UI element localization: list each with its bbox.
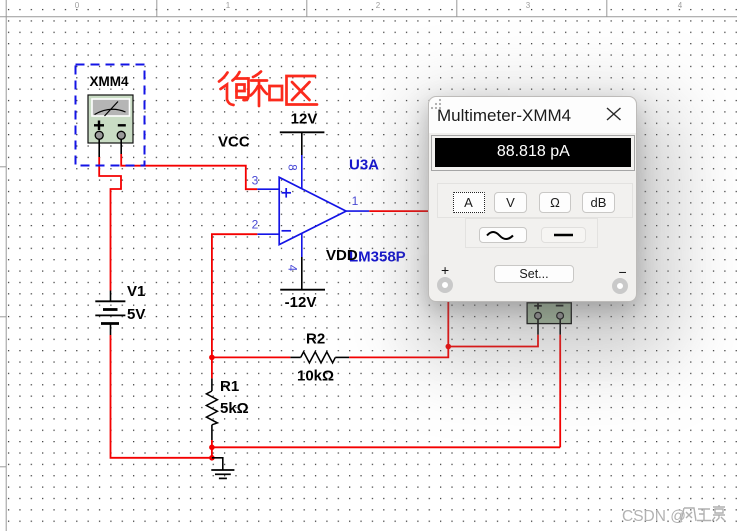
ruler left line [5, 0, 7, 531]
opamp pin1 lead [346, 210, 369, 212]
dialog minus label [619, 264, 627, 280]
VCC label 12V [291, 111, 318, 128]
VCC power rail [280, 132, 325, 155]
wire green meter plus to output node (red) [448, 335, 538, 347]
svg-text:8: 8 [285, 164, 297, 170]
svg-text:VDD: VDD [326, 247, 358, 264]
resistor R2 [290, 352, 349, 363]
wire XMM4 plus to V1 (red) [99, 157, 121, 291]
wire opamp output to hidden node (red) [369, 211, 448, 346]
VDD net label [326, 247, 358, 264]
multimeter XMM4 terminal pins [95, 131, 125, 139]
dialog waveform group [465, 218, 598, 248]
opamp pin number 3 [252, 174, 259, 188]
svg-text:12V: 12V [291, 111, 318, 128]
VDD power rail [280, 257, 325, 290]
opamp refdes U3A [349, 157, 379, 174]
opamp pin number 8 (rotated) [285, 164, 297, 170]
opamp pin8 lead [301, 155, 303, 188]
dialog button dc [541, 227, 586, 243]
ruler top line [0, 16, 737, 18]
opamp pin4 lead [301, 234, 303, 258]
dialog title bar [429, 97, 636, 133]
battery V1 labels [127, 283, 145, 323]
svg-text:2: 2 [252, 218, 259, 232]
opamp pin number 1 [352, 194, 359, 208]
svg-text:VCC: VCC [218, 134, 250, 151]
dialog left terminal [437, 277, 453, 293]
svg-text:3: 3 [252, 174, 259, 188]
svg-text:10kΩ: 10kΩ [297, 368, 334, 385]
ruler top numbers [75, 1, 683, 10]
annotation 饱和区 (red CJK, drawn strokes) [219, 72, 317, 107]
resistor R1 labels [220, 378, 249, 417]
svg-text:3: 3 [526, 1, 531, 10]
green meter icon (partially hidden) [527, 303, 571, 324]
svg-text:5kΩ: 5kΩ [220, 400, 249, 417]
svg-text:4: 4 [678, 1, 683, 10]
wire R1 top (red) [211, 357, 213, 378]
dialog button V [494, 192, 527, 213]
multimeter dialog window [428, 96, 637, 302]
VDD label -12V [285, 294, 317, 311]
dialog Set button [494, 265, 574, 283]
wire opamp pin2 feedback (red) [212, 234, 257, 357]
junction R1 bottom [209, 445, 215, 451]
svg-text:0: 0 [75, 1, 80, 10]
VCC net label [218, 134, 250, 151]
ruler left ticks [0, 167, 6, 467]
opamp pin2 lead [257, 233, 279, 235]
wire green meter plus stub (black) [537, 319, 539, 335]
wire XMM4 minus to opamp pin3 (red) [121, 154, 257, 189]
opamp part LM358P [349, 249, 406, 266]
watermark CSDN [622, 508, 686, 525]
dialog button dB [582, 192, 615, 213]
watermark CJK name (drawn strokes) [681, 505, 725, 521]
multimeter XMM4 body [88, 95, 133, 143]
wire bottom row to green meter minus (red) [212, 446, 560, 448]
multimeter XMM4 selection box (dashed) [76, 65, 145, 166]
wire XMM4 minus stub (black) [120, 139, 122, 154]
junction ground row [209, 455, 215, 461]
svg-text:V1: V1 [127, 283, 145, 300]
opamp pin3 lead [257, 188, 279, 190]
ground [211, 458, 234, 479]
wire green meter minus stub (black) [559, 319, 561, 335]
dialog right terminal [612, 278, 628, 294]
svg-text:2: 2 [376, 1, 381, 10]
junction output node [446, 344, 452, 350]
wire green meter minus down (red) [559, 335, 561, 448]
svg-text:R2: R2 [306, 331, 325, 348]
dialog button A [453, 192, 485, 213]
ruler top ticks [157, 0, 607, 17]
dialog reading display [431, 135, 635, 171]
multimeter XMM4 plus terminal mark [94, 121, 104, 131]
multimeter XMM4 minus terminal mark [118, 124, 126, 126]
wire R2 right to node (red) [349, 347, 448, 358]
wire R1 bottom to junctions (red) [211, 440, 213, 458]
multimeter XMM4 label [89, 74, 128, 89]
opamp pin number 2 [252, 218, 259, 232]
svg-text:-12V: -12V [285, 294, 317, 311]
battery V1 [95, 291, 125, 336]
junction feedback node [209, 355, 215, 361]
opamp pin number 4 (rotated) [285, 265, 297, 272]
dialog resize grip [429, 97, 443, 111]
dialog plus label [441, 262, 449, 278]
svg-text:XMM4: XMM4 [89, 74, 128, 89]
svg-text:1: 1 [352, 194, 359, 208]
svg-text:U3A: U3A [349, 157, 379, 174]
dialog button sine [479, 227, 527, 243]
resistor R1 [206, 378, 217, 440]
svg-text:CSDN @: CSDN @ [622, 508, 686, 525]
opamp U3A triangle [279, 177, 346, 244]
wire V1 to ground row (red) [111, 335, 212, 458]
dialog mode group [437, 183, 633, 218]
svg-text:R1: R1 [220, 378, 239, 395]
svg-text:4: 4 [285, 265, 297, 272]
svg-text:5V: 5V [127, 306, 145, 323]
svg-text:1: 1 [226, 1, 231, 10]
dialog button Ohm [539, 192, 571, 213]
wire XMM4 plus stub (black) [98, 139, 100, 157]
wire R2 left to junction (red) [212, 356, 290, 358]
dialog close button [604, 107, 624, 127]
resistor R2 labels [297, 331, 334, 385]
